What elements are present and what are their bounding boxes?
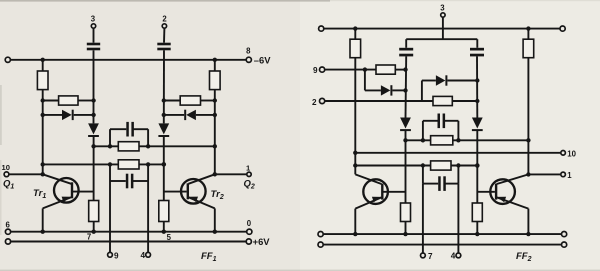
wire terminal 1 output bbox=[215, 173, 247, 175]
junction branch B at collector line bbox=[41, 162, 45, 166]
junction bbox=[146, 162, 150, 166]
Tr2 emitter wire to rail bbox=[214, 208, 216, 231]
svg-text:9: 9 bbox=[313, 66, 318, 75]
FF2 rail2 left terminal bbox=[318, 242, 323, 247]
wire R16 to rail bbox=[476, 222, 478, 235]
Tr4 emitter arrow bbox=[497, 197, 506, 203]
svg-text:2: 2 bbox=[162, 15, 167, 24]
wire FF2 branch B row bbox=[355, 165, 477, 167]
terminal 9 bbox=[108, 252, 113, 257]
svg-text:–6V: –6V bbox=[254, 55, 271, 66]
wire FF2 terminal 10 line bbox=[355, 152, 561, 154]
junction D1 right bbox=[91, 113, 95, 117]
junction R4 right bbox=[213, 98, 217, 102]
wire left trigger cap to steering diode bbox=[405, 56, 408, 117]
wire FF2 right collector line bbox=[527, 58, 529, 175]
svg-text:3: 3 bbox=[91, 15, 96, 24]
wire FF2 branch A left stub bbox=[422, 121, 424, 141]
wire terminal 2 to right ext network bbox=[325, 100, 433, 102]
FF1 terminal 8 bbox=[246, 57, 251, 62]
svg-text:7: 7 bbox=[87, 233, 91, 242]
wire branch A left stub bbox=[109, 129, 111, 146]
junction R3 right bbox=[91, 98, 95, 102]
wire right trigger cap top lead bbox=[476, 39, 478, 48]
FF1 rail2 left terminal bbox=[5, 239, 10, 244]
wire top rail to right load resistor bbox=[214, 60, 216, 71]
wire FF2 terminal 4 line bbox=[457, 184, 459, 254]
junction emitter rail bbox=[41, 230, 45, 234]
resistor R6 branch B bbox=[118, 160, 139, 169]
junction Q2 node bbox=[213, 172, 217, 176]
diode D5 ext steering left bbox=[381, 85, 391, 95]
junction bbox=[526, 26, 530, 30]
Tr3 emitter lead bbox=[355, 197, 381, 208]
resistor R7 left base bias bbox=[89, 201, 99, 222]
junction R4 left bbox=[162, 98, 166, 102]
wire left steering resistor row bbox=[43, 100, 59, 102]
Tr1 collector lead bbox=[43, 174, 71, 184]
FF2 +6V rail wire bbox=[321, 244, 564, 246]
wire branch B cap leads bbox=[110, 180, 126, 182]
resistor R10 FF2 right load bbox=[523, 39, 534, 58]
wire R8 to rail bbox=[163, 222, 165, 232]
wire D3 to base node bbox=[93, 137, 95, 201]
junction bbox=[456, 163, 460, 167]
wire D4 to base node bbox=[163, 137, 165, 201]
wire branch A right stub bbox=[147, 129, 149, 146]
Tr3 emitter arrow bbox=[372, 197, 381, 203]
FF1 +6V rail wire bbox=[8, 241, 249, 243]
junction branch A right end bbox=[213, 144, 217, 148]
junction D1 left bbox=[41, 113, 45, 117]
diode D7 FF2 left vertical steering bbox=[400, 118, 411, 129]
Tr1 emitter lead bbox=[43, 197, 71, 208]
terminal 10 FF2 bbox=[561, 151, 566, 156]
wire D7 to base node bbox=[405, 131, 407, 203]
Tr4 emitter lead bbox=[497, 197, 529, 208]
wire FF2 branch B cap leads bbox=[423, 183, 438, 185]
junction branch A right end bbox=[526, 138, 530, 142]
junction bbox=[108, 162, 112, 166]
junction branch A left end bbox=[403, 138, 407, 142]
FF2 rail2 right terminal bbox=[562, 242, 567, 247]
resistor R13 FF2 branch A bbox=[431, 136, 453, 145]
Tr1 base lead bbox=[73, 191, 94, 193]
transistor Tr2 bbox=[181, 179, 206, 204]
resistor R14 FF2 branch B bbox=[431, 161, 451, 170]
wire left load resistor down to collector corner bbox=[42, 90, 44, 165]
FF1 top supply rail -6V wire bbox=[8, 59, 249, 61]
junction emitter rail bbox=[213, 230, 217, 234]
junction top rail right bbox=[213, 58, 217, 62]
svg-text:10: 10 bbox=[567, 149, 576, 158]
wire FF2 branch B left stub bbox=[422, 166, 424, 184]
svg-text:1: 1 bbox=[567, 171, 572, 180]
junction at right base line bbox=[475, 99, 479, 103]
Tr3 collector lead bbox=[355, 174, 381, 184]
Tr4 collector lead bbox=[497, 174, 529, 184]
transistor Tr4 FF2 right bbox=[490, 179, 515, 204]
diode D3 left vertical steering bbox=[88, 123, 99, 134]
diode D6 ext steering right bbox=[436, 75, 446, 85]
wire terminal 2 to capacitor bbox=[163, 28, 165, 43]
capacitor C2 trigger right bbox=[157, 43, 170, 46]
junction bbox=[353, 26, 357, 30]
resistor R8 right base bias bbox=[159, 201, 169, 222]
wire D8 to base node bbox=[476, 131, 478, 203]
scan artifact background halves bbox=[0, 0, 300, 271]
scan artifact top streak bbox=[0, 0, 330, 2]
FF2 rail1 left terminal bbox=[318, 232, 323, 237]
capacitor C9 FF2 branch B bbox=[438, 176, 441, 191]
resistor R5 branch A bbox=[118, 142, 139, 151]
junction branch B right end bbox=[162, 162, 167, 167]
wire branch B left stub bbox=[109, 164, 111, 181]
FF2 ground rail wire bbox=[321, 233, 564, 235]
wire left steering diode row bbox=[43, 114, 62, 116]
junction bbox=[456, 138, 460, 142]
junction stub bbox=[363, 67, 367, 71]
wire branch B row collector Tr1 to base Tr2 bbox=[43, 163, 164, 165]
wire capacitor to steering diode crossing rail bbox=[163, 50, 165, 123]
junction branch A left end bbox=[91, 144, 95, 148]
transistor Tr3 FF2 left bbox=[363, 179, 388, 204]
svg-text:6: 6 bbox=[6, 221, 11, 230]
FF1 terminal 3 bbox=[91, 24, 95, 28]
svg-text:3: 3 bbox=[440, 4, 445, 13]
wire top rail to FF2 left load resistor bbox=[354, 29, 356, 40]
wire terminal 9 line bbox=[109, 181, 111, 253]
FF2 terminal left of top rail bbox=[319, 26, 324, 31]
resistor R3 left steering bbox=[59, 96, 78, 105]
Tr2 collector lead bbox=[188, 174, 214, 184]
capacitor C3 trigger left bbox=[87, 43, 100, 46]
wire branch B right stub bbox=[147, 164, 149, 181]
capacitor C6 left trigger bbox=[399, 48, 413, 51]
wire ext diode row left bbox=[365, 89, 381, 91]
wire terminal 3 to capacitor bbox=[93, 28, 95, 43]
svg-text:9: 9 bbox=[114, 252, 119, 261]
Tr1 emitter arrow bbox=[62, 197, 71, 203]
Tr2 emitter lead bbox=[188, 197, 214, 208]
resistor R11 ext steering left bbox=[376, 65, 395, 74]
wire FF2 branch B right stub bbox=[457, 166, 459, 184]
junction branch B right end bbox=[475, 163, 480, 168]
junction R3 left bbox=[41, 98, 45, 102]
terminal 1 FF2 bbox=[561, 172, 566, 177]
capacitor C8 FF2 branch A bbox=[438, 114, 441, 129]
FF2 terminal 9 bbox=[320, 67, 325, 72]
FF1 rail2 right terminal bbox=[246, 239, 251, 244]
capacitor C7 right trigger bbox=[470, 48, 484, 51]
Tr4 base lead bbox=[477, 191, 495, 193]
FF1 terminal 2 bbox=[162, 24, 166, 28]
wire FF2 terminal 1 output bbox=[528, 173, 561, 175]
wire left trigger cap top lead bbox=[405, 39, 407, 48]
junction at left collector bbox=[353, 151, 357, 155]
Tr3 base lead bbox=[383, 191, 405, 193]
wire right trigger cap to steering diode bbox=[476, 56, 478, 117]
resistor R9 FF2 left load bbox=[350, 39, 361, 58]
Tr3 emitter wire to rail bbox=[354, 209, 356, 235]
junction R16 rail bbox=[475, 232, 479, 236]
junction emitter rail bbox=[353, 232, 357, 236]
junction top rail left bbox=[41, 58, 45, 62]
wire trigger distribution line bbox=[406, 38, 477, 40]
wire R7 to rail bbox=[93, 222, 95, 232]
junction bbox=[108, 144, 112, 148]
FF2 rail1 right terminal bbox=[562, 232, 567, 237]
wire top rail to FF2 right load resistor bbox=[527, 29, 529, 40]
terminal 7 FF2 bbox=[421, 253, 426, 258]
junction R7 rail bbox=[92, 230, 96, 234]
Tr1 emitter wire to rail bbox=[42, 208, 44, 231]
svg-text:0: 0 bbox=[247, 219, 252, 228]
svg-text:8: 8 bbox=[246, 47, 251, 56]
Tr2 emitter arrow bbox=[189, 197, 198, 203]
wire terminal 4 line bbox=[147, 181, 149, 253]
FF1 terminal left of top rail bbox=[5, 57, 10, 62]
FF2 terminal 2 bbox=[320, 98, 325, 103]
junction D2 left bbox=[162, 113, 166, 117]
Tr4 emitter wire to rail bbox=[527, 209, 529, 235]
svg-text:2: 2 bbox=[312, 98, 317, 107]
junction emitter rail bbox=[526, 232, 530, 236]
terminal 10 bbox=[4, 172, 9, 177]
junction at right base line bbox=[475, 78, 479, 82]
capacitor C4 branch A bbox=[126, 122, 129, 137]
wire right load resistor down to collector bbox=[214, 90, 216, 175]
wire FF2 branch A cap leads bbox=[423, 120, 438, 122]
diode D4 right vertical steering bbox=[158, 123, 169, 134]
wire capacitor to steering diode crossing rail bbox=[93, 50, 95, 123]
wire ext stub left bbox=[364, 70, 366, 91]
svg-text:10: 10 bbox=[2, 163, 10, 172]
terminal 6 bbox=[5, 229, 10, 234]
terminal 4 FF2 bbox=[456, 253, 461, 258]
transistor Tr1 bbox=[54, 178, 79, 203]
wire terminal 9 to ext resistor bbox=[325, 69, 376, 71]
resistor R12 ext steering right bbox=[433, 96, 452, 105]
wire FF2 terminal 7 line bbox=[422, 184, 424, 254]
wire ext stub right bbox=[421, 81, 423, 102]
terminal 0 bbox=[247, 229, 252, 234]
svg-text:+6V: +6V bbox=[253, 236, 271, 247]
junction at base line bbox=[403, 67, 407, 71]
wire FF2 branch A row bbox=[406, 139, 529, 141]
scan artifact left edge bbox=[0, 85, 2, 145]
scan artifact bottom streak bbox=[0, 270, 600, 271]
Tr2 base lead bbox=[164, 191, 187, 193]
resistor R16 FF2 right base bias bbox=[472, 203, 482, 222]
terminal 1 bbox=[247, 172, 251, 176]
svg-text:4: 4 bbox=[451, 252, 456, 261]
wire right steering diode row bbox=[164, 114, 184, 116]
diode D1 left steering bbox=[62, 110, 72, 120]
junction FF2 Q node bbox=[526, 172, 530, 176]
FF1 ground rail wire bbox=[8, 231, 249, 233]
FF2 top supply rail wire bbox=[321, 28, 562, 30]
wire top rail to left load resistor bbox=[42, 60, 44, 71]
junction Q1 node bbox=[41, 172, 45, 176]
FF2 terminal right of top rail bbox=[560, 26, 565, 31]
junction R15 rail bbox=[403, 232, 407, 236]
junction bbox=[421, 163, 425, 167]
junction bbox=[146, 144, 150, 148]
diode D8 FF2 right vertical steering bbox=[472, 118, 483, 129]
wire branch A cap leads bbox=[110, 128, 126, 130]
wire R15 to rail bbox=[405, 222, 407, 235]
junction D2 right bbox=[213, 113, 217, 117]
junction bbox=[421, 138, 425, 142]
resistor R4 right steering bbox=[180, 96, 200, 105]
resistor R1 left load bbox=[37, 71, 48, 90]
wire terminal 3 down crossing rail bbox=[442, 17, 444, 39]
diode D2 right steering bbox=[186, 110, 196, 120]
capacitor C5 branch B bbox=[126, 174, 129, 189]
FF2 terminal 3 bbox=[441, 13, 445, 17]
resistor R15 FF2 left base bias bbox=[401, 203, 411, 222]
wire right steering resistor row bbox=[164, 100, 180, 102]
junction R8 rail bbox=[162, 230, 166, 234]
svg-text:4: 4 bbox=[141, 251, 146, 260]
wire FF2 branch A right stub bbox=[457, 121, 459, 141]
wire ext diode row right bbox=[422, 80, 436, 82]
junction at base line bbox=[403, 88, 407, 92]
wire branch A row bbox=[94, 145, 215, 147]
wire FF2 left collector line bbox=[354, 58, 356, 175]
svg-text:7: 7 bbox=[428, 252, 433, 261]
wire left collector down segment bbox=[42, 164, 44, 174]
resistor R2 right load bbox=[210, 71, 221, 90]
wire terminal 10 output bbox=[9, 173, 43, 175]
junction branch B at collector line bbox=[353, 163, 357, 167]
terminal 4 bbox=[146, 252, 151, 257]
